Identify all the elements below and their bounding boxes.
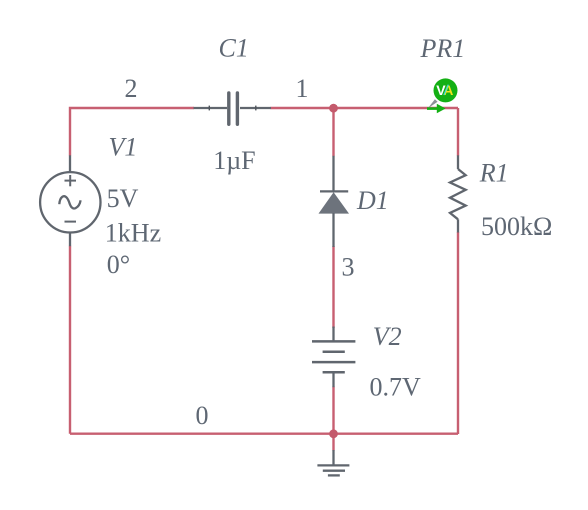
svg-text:0°: 0° [107,250,130,279]
junction node 0 dot [329,429,338,438]
probe PR1 [427,78,458,113]
wire net1: C1 right plate to node 1 and down to right corner [271,107,459,109]
wire net0: bottom horizontal rail [70,433,458,435]
svg-text:PR1: PR1 [420,34,466,63]
diode D1 [319,156,350,247]
wire net1: vertical drop from node 1 to diode D1 [332,108,334,156]
wire net2: top-left horizontal from V1 to C1 [70,108,194,156]
junction node 1 dot [329,104,338,113]
svg-text:1: 1 [296,74,309,103]
svg-text:D1: D1 [356,186,389,215]
wire net0: V1 bottom down the left rail [69,246,71,434]
battery V2 [312,327,355,388]
svg-text:0: 0 [196,401,209,430]
svg-text:3: 3 [342,252,355,281]
wire net0: right branch below R1 [457,232,459,434]
svg-text:5V: 5V [107,184,139,213]
capacitor C1 [194,93,272,124]
resistor R1 [450,155,466,232]
wire net0: ground stub below junction [332,434,334,451]
svg-text:V2: V2 [373,322,402,351]
wire net0: battery bottom to ground node [332,387,334,435]
ground [317,450,349,475]
wire net3: diode anode to battery V2 [332,246,334,328]
svg-text:500kΩ: 500kΩ [481,212,552,241]
svg-text:1µF: 1µF [213,146,255,175]
svg-text:2: 2 [125,74,138,103]
svg-text:C1: C1 [219,34,249,63]
svg-text:1kHz: 1kHz [105,218,161,247]
wire net1: right branch down to R1 [457,108,459,156]
svg-text:V1: V1 [109,133,138,162]
svg-text:R1: R1 [479,159,509,188]
svg-text:0.7V: 0.7V [370,373,422,402]
ac source V1 [40,155,100,246]
